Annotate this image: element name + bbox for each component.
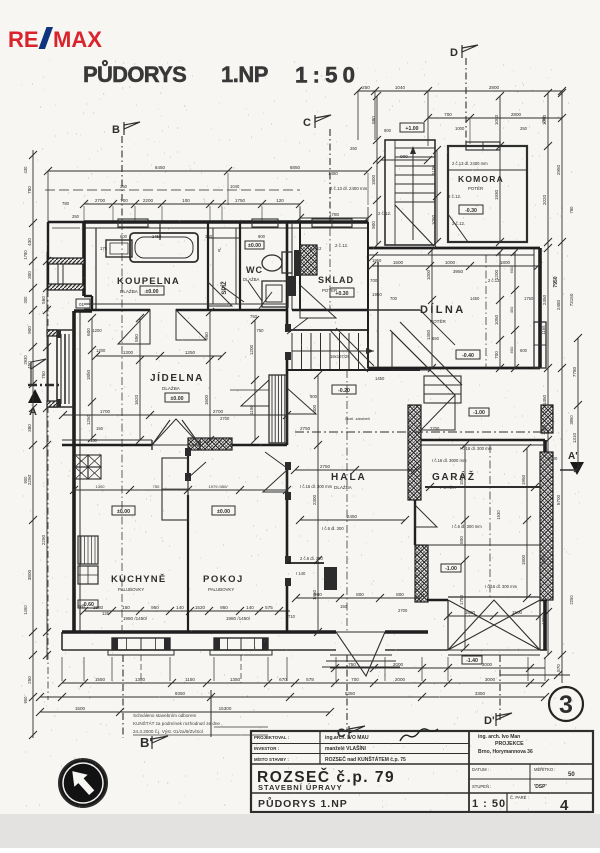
svg-text:1350: 1350 <box>230 677 241 682</box>
svg-text:STUPEŇ :: STUPEŇ : <box>472 784 491 789</box>
svg-text:DLAŽBA: DLAŽBA <box>120 287 139 294</box>
svg-text:900: 900 <box>314 592 322 597</box>
svg-text:1850: 1850 <box>86 369 91 380</box>
svg-text:1780: 1780 <box>23 250 28 260</box>
svg-text:KOMORA: KOMORA <box>458 174 504 184</box>
svg-text:900: 900 <box>400 154 408 159</box>
svg-text:2750: 2750 <box>320 464 331 469</box>
svg-text:-0.20: -0.20 <box>338 388 350 394</box>
svg-text:1050: 1050 <box>494 314 499 325</box>
svg-text:2 č.12.: 2 č.12. <box>378 211 391 216</box>
svg-text:1000: 1000 <box>445 260 456 265</box>
svg-text:2250: 2250 <box>41 534 46 545</box>
svg-text:A': A' <box>568 451 578 462</box>
svg-text:1000: 1000 <box>494 114 499 125</box>
svg-text:PŮDORYS 1.NP: PŮDORYS 1.NP <box>258 796 348 810</box>
svg-text:±0.00: ±0.00 <box>217 509 230 515</box>
svg-text:±0.00: ±0.00 <box>248 243 261 249</box>
svg-text:900: 900 <box>371 221 376 229</box>
svg-text:PŮDORYS: PŮDORYS <box>83 59 186 87</box>
svg-text:1700: 1700 <box>100 409 111 414</box>
svg-text:D': D' <box>484 715 495 727</box>
svg-text:1500: 1500 <box>465 610 476 615</box>
svg-text:2 č.12.: 2 č.12. <box>448 194 461 199</box>
svg-text:175: 175 <box>100 246 108 251</box>
svg-text:INVESTOR :: INVESTOR : <box>254 746 280 751</box>
svg-text:150: 150 <box>340 604 348 609</box>
svg-text:PROJEKCE: PROJEKCE <box>495 741 524 747</box>
svg-text:73150: 73150 <box>569 293 574 306</box>
svg-text:1450: 1450 <box>328 171 338 176</box>
svg-text:2800: 2800 <box>511 112 522 117</box>
svg-text:-1.00: -1.00 <box>473 410 485 416</box>
svg-text:780: 780 <box>62 201 70 206</box>
svg-text:7780: 7780 <box>572 366 577 377</box>
svg-text:1380: 1380 <box>135 677 146 682</box>
svg-text:1800: 1800 <box>521 554 526 565</box>
svg-text:2 č.13 dl. 2400 mm: 2 č.13 dl. 2400 mm <box>452 161 488 166</box>
svg-text:600: 600 <box>86 328 91 336</box>
svg-text:1950: 1950 <box>521 474 526 485</box>
svg-text:2700: 2700 <box>220 416 230 421</box>
svg-text:I č.16 dl. 300 mm: I č.16 dl. 300 mm <box>460 446 493 451</box>
svg-text:700: 700 <box>390 296 398 301</box>
svg-text:800: 800 <box>356 592 364 597</box>
svg-text:850: 850 <box>134 334 139 342</box>
svg-text:JÍDELNA: JÍDELNA <box>150 371 204 384</box>
svg-text:1350: 1350 <box>426 329 431 340</box>
svg-text:1500: 1500 <box>512 610 523 615</box>
svg-text:15300: 15300 <box>219 706 232 711</box>
svg-text:B: B <box>112 124 120 136</box>
svg-text:-0.30: -0.30 <box>465 208 477 214</box>
svg-text:1530: 1530 <box>496 510 501 520</box>
svg-text:2700: 2700 <box>95 198 106 203</box>
svg-text:-0.40: -0.40 <box>462 353 474 359</box>
svg-text:HALA: HALA <box>331 472 367 483</box>
svg-text:1450: 1450 <box>23 605 28 615</box>
svg-text:5700: 5700 <box>556 494 561 505</box>
svg-text:700: 700 <box>444 112 452 117</box>
svg-text:350: 350 <box>205 234 213 239</box>
svg-text:150: 150 <box>122 605 130 610</box>
svg-text:1950: 1950 <box>372 258 382 263</box>
svg-text:PROJEKTOVAL :: PROJEKTOVAL : <box>254 735 290 740</box>
svg-text:1250: 1250 <box>185 350 196 355</box>
svg-text:300: 300 <box>23 296 28 304</box>
svg-text:2750: 2750 <box>300 426 311 431</box>
svg-text:3350: 3350 <box>475 691 486 696</box>
svg-text:1150: 1150 <box>185 677 195 682</box>
svg-text:KUNŠTÁT za podmínek rozhodnutí: KUNŠTÁT za podmínek rozhodnutí ze dne <box>133 720 220 726</box>
svg-text:700: 700 <box>120 198 128 203</box>
svg-text:2300: 2300 <box>312 494 317 505</box>
svg-text:RE: RE <box>8 27 39 52</box>
svg-text:POTĚR: POTĚR <box>322 288 337 293</box>
svg-text:880: 880 <box>371 116 376 124</box>
svg-text:1500: 1500 <box>75 706 86 711</box>
svg-text:1450: 1450 <box>375 376 385 381</box>
svg-text:1200: 1200 <box>92 328 102 333</box>
svg-text:2200: 2200 <box>143 198 154 203</box>
svg-text:7950: 7950 <box>553 276 559 287</box>
svg-text:700: 700 <box>351 677 359 682</box>
svg-text:1.NP: 1.NP <box>221 62 268 87</box>
svg-text:1150: 1150 <box>249 405 254 415</box>
svg-text:2950: 2950 <box>556 164 561 175</box>
svg-text:-1.00: -1.00 <box>445 566 457 572</box>
svg-text:-1.40: -1.40 <box>466 658 478 664</box>
svg-text:150: 150 <box>90 438 98 443</box>
svg-text:MĚŘÍTKO :: MĚŘÍTKO : <box>534 767 555 772</box>
svg-text:manželé VLAŠÍNI: manželé VLAŠÍNI <box>325 744 366 752</box>
svg-text:870: 870 <box>556 664 561 672</box>
svg-text:I č.16 dl. 300 mm: I č.16 dl. 300 mm <box>300 484 333 489</box>
svg-text:D: D <box>450 47 458 59</box>
svg-text:1400: 1400 <box>312 404 317 415</box>
svg-text:2350: 2350 <box>541 555 546 565</box>
svg-text:6450: 6450 <box>155 165 166 170</box>
svg-text:600: 600 <box>509 346 514 353</box>
svg-text:GARÁŽ: GARÁŽ <box>432 470 476 483</box>
svg-text:450: 450 <box>509 306 514 313</box>
svg-text:C: C <box>303 117 311 129</box>
svg-text:Č. PARÉ :: Č. PARÉ : <box>510 795 529 800</box>
svg-text:1 : 50: 1 : 50 <box>472 798 506 810</box>
svg-text:250: 250 <box>520 126 528 131</box>
svg-text:1950: 1950 <box>372 292 382 297</box>
svg-text:150: 150 <box>96 426 104 431</box>
svg-text:DÍLNA: DÍLNA <box>420 303 466 316</box>
svg-text:I č.6 dl. 300 mm: I č.6 dl. 300 mm <box>452 524 482 529</box>
svg-text:560: 560 <box>78 604 86 609</box>
svg-text:ing. arch. Ivo Man: ing. arch. Ivo Man <box>478 734 520 740</box>
svg-text:600: 600 <box>120 234 128 239</box>
svg-text:±0.00: ±0.00 <box>117 509 130 515</box>
svg-text:1200: 1200 <box>96 348 106 353</box>
svg-text:+1.00: +1.00 <box>405 126 418 132</box>
svg-text:430: 430 <box>27 238 32 246</box>
svg-text:2350: 2350 <box>541 425 546 435</box>
svg-text:250: 250 <box>72 214 80 219</box>
svg-text:3850: 3850 <box>569 415 574 425</box>
svg-text:POTĚR: POTĚR <box>430 317 447 324</box>
svg-text:1100: 1100 <box>431 165 436 175</box>
svg-text:1310: 1310 <box>572 432 577 443</box>
svg-text:PALUBOVKY: PALUBOVKY <box>208 587 234 592</box>
svg-text:'DSP': 'DSP' <box>534 784 547 790</box>
svg-text:2700: 2700 <box>213 409 224 414</box>
svg-text:KOUPELNA: KOUPELNA <box>117 276 180 287</box>
svg-text:2700: 2700 <box>430 426 440 431</box>
svg-text:1620: 1620 <box>134 394 139 405</box>
svg-text:600: 600 <box>509 266 514 273</box>
svg-text:POTĚR: POTĚR <box>468 186 483 191</box>
svg-text:3950: 3950 <box>453 269 464 274</box>
svg-text:575: 575 <box>265 605 273 610</box>
svg-text:2250: 2250 <box>569 595 574 605</box>
svg-text:1:50: 1:50 <box>295 63 360 88</box>
svg-text:1040: 1040 <box>230 184 240 189</box>
svg-text:DLAŽBA: DLAŽBA <box>243 277 259 282</box>
svg-text:650: 650 <box>432 336 440 341</box>
svg-text:250: 250 <box>120 184 128 189</box>
svg-text:2800: 2800 <box>489 85 500 90</box>
svg-text:1550: 1550 <box>95 677 106 682</box>
svg-text:250: 250 <box>27 676 32 684</box>
svg-text:50: 50 <box>568 772 575 778</box>
svg-text:2 č.13 dl. 2400 mm: 2 č.13 dl. 2400 mm <box>330 186 368 191</box>
svg-text:750: 750 <box>348 662 356 667</box>
svg-text:±0.00: ±0.00 <box>171 396 184 402</box>
svg-text:1450: 1450 <box>470 296 480 301</box>
svg-text:950: 950 <box>23 696 28 704</box>
svg-text:950: 950 <box>220 605 228 610</box>
svg-text:9350: 9350 <box>175 691 186 696</box>
svg-text:2700: 2700 <box>398 608 408 613</box>
svg-text:800: 800 <box>396 592 404 597</box>
svg-text:1450: 1450 <box>542 394 547 405</box>
svg-text:5700: 5700 <box>548 456 558 461</box>
svg-text:2 č.12: 2 č.12 <box>310 246 322 251</box>
svg-text:140: 140 <box>246 605 254 610</box>
svg-text:I č.6 dl. 300: I č.6 dl. 300 <box>322 526 344 531</box>
svg-text:710: 710 <box>288 614 296 619</box>
svg-text:2 č.12.: 2 č.12. <box>335 243 348 248</box>
svg-text:900: 900 <box>23 476 28 484</box>
svg-text:900: 900 <box>27 326 32 334</box>
svg-text:1750: 1750 <box>235 198 246 203</box>
svg-text:3000: 3000 <box>485 677 496 682</box>
svg-text:1750: 1750 <box>459 594 464 605</box>
svg-text:2 č.12.: 2 č.12. <box>488 278 501 283</box>
svg-text:2000: 2000 <box>395 677 406 682</box>
svg-text:ROZSEČ nad KUNŠTÁTEM č.p.: ROZSEČ nad KUNŠTÁTEM č.p. 75 <box>325 755 406 763</box>
svg-text:120: 120 <box>276 198 284 203</box>
svg-text:1200: 1200 <box>541 615 546 625</box>
svg-text:250: 250 <box>362 85 370 90</box>
svg-text:1050: 1050 <box>431 214 436 225</box>
svg-text:140: 140 <box>176 605 184 610</box>
svg-text:2930: 2930 <box>23 355 28 365</box>
svg-text:2000: 2000 <box>393 662 404 667</box>
svg-text:300: 300 <box>27 271 32 279</box>
svg-text:STAVEBNÍ ÚPRAVY: STAVEBNÍ ÚPRAVY <box>258 783 343 792</box>
svg-text:+0.30: +0.30 <box>335 291 348 297</box>
svg-text:430: 430 <box>23 166 28 174</box>
svg-text:DLAŽBA: DLAŽBA <box>162 384 181 391</box>
svg-text:950: 950 <box>151 605 159 610</box>
svg-text:5350: 5350 <box>345 691 356 696</box>
svg-text:1000: 1000 <box>455 126 465 131</box>
svg-text:1980 /1450/: 1980 /1450/ <box>226 616 251 621</box>
svg-text:B': B' <box>140 735 152 750</box>
svg-text:1200: 1200 <box>249 344 254 355</box>
svg-text:900: 900 <box>258 234 266 239</box>
svg-text:3000: 3000 <box>482 662 493 667</box>
svg-text:3: 3 <box>559 691 573 719</box>
svg-text:3800: 3800 <box>27 569 32 580</box>
svg-text:900: 900 <box>310 394 318 399</box>
svg-text:380: 380 <box>27 424 32 432</box>
svg-text:I č.16 dl. 3000 mm: I č.16 dl. 3000 mm <box>432 458 467 463</box>
svg-text:±0.00: ±0.00 <box>146 289 159 295</box>
svg-text:750: 750 <box>153 484 160 489</box>
svg-text:2450: 2450 <box>542 294 547 305</box>
svg-text:900: 900 <box>384 128 392 133</box>
svg-text:Schváleno stavebním odborem: Schváleno stavebním odborem <box>133 713 197 718</box>
svg-text:780: 780 <box>569 206 574 214</box>
svg-text:1250: 1250 <box>86 414 91 425</box>
svg-text:1979 /450/: 1979 /450/ <box>209 484 229 489</box>
svg-text:DATUM :: DATUM : <box>472 767 489 772</box>
svg-text:125: 125 <box>102 611 110 616</box>
svg-text:DLAŽBA: DLAŽBA <box>334 483 353 490</box>
svg-text:6850: 6850 <box>290 165 301 170</box>
svg-text:24.3.2000 č.j. Výst. 01/za: 24.3.2000 č.j. Výst. 01/za/9/Zv/Sol <box>133 729 203 734</box>
svg-text:2480: 2480 <box>556 299 561 310</box>
svg-text:1040: 1040 <box>395 85 406 90</box>
svg-text:1300: 1300 <box>123 350 134 355</box>
svg-text:1980 /1450/: 1980 /1450/ <box>123 616 148 621</box>
svg-text:1300: 1300 <box>96 484 106 489</box>
svg-text:1500: 1500 <box>393 260 404 265</box>
svg-text:1930: 1930 <box>494 189 499 200</box>
svg-text:1780: 1780 <box>329 212 340 217</box>
svg-text:560: 560 <box>41 296 46 304</box>
svg-text:MAX: MAX <box>53 27 102 52</box>
svg-text:1800: 1800 <box>500 260 511 265</box>
svg-text:I 140: I 140 <box>296 571 306 576</box>
svg-text:800: 800 <box>459 536 464 544</box>
svg-text:1520: 1520 <box>195 605 206 610</box>
svg-text:2450: 2450 <box>347 514 358 519</box>
svg-text:750: 750 <box>41 371 46 379</box>
svg-text:670: 670 <box>279 677 287 682</box>
svg-text:2020: 2020 <box>542 194 547 205</box>
svg-text:600: 600 <box>520 348 528 353</box>
svg-text:1500: 1500 <box>459 474 464 485</box>
svg-text:POKOJ: POKOJ <box>203 574 244 585</box>
svg-text:250: 250 <box>350 146 358 151</box>
svg-text:Ocel. zárubeň: Ocel. zárubeň <box>345 416 370 421</box>
svg-text:MÍSTO STAVBY :: MÍSTO STAVBY : <box>254 757 289 762</box>
svg-text:18x167/29: 18x167/29 <box>330 354 350 359</box>
svg-text:WC: WC <box>246 265 263 275</box>
svg-text:1600: 1600 <box>204 394 209 405</box>
svg-text:SKLAD: SKLAD <box>318 275 354 285</box>
svg-text:750: 750 <box>257 328 265 333</box>
svg-text:780: 780 <box>27 186 32 194</box>
svg-text:700: 700 <box>494 351 499 359</box>
svg-text:Brno, Horymannova 36: Brno, Horymannova 36 <box>478 749 533 755</box>
svg-text:700: 700 <box>370 278 378 283</box>
svg-text:1450: 1450 <box>152 234 162 239</box>
svg-text:2 č.6 dl. 300: 2 č.6 dl. 300 <box>300 556 323 561</box>
svg-text:250: 250 <box>541 116 546 124</box>
svg-text:1165: 1165 <box>541 325 546 335</box>
svg-text:1800: 1800 <box>371 174 376 185</box>
svg-text:1750: 1750 <box>524 296 534 301</box>
svg-text:1000: 1000 <box>426 269 431 280</box>
